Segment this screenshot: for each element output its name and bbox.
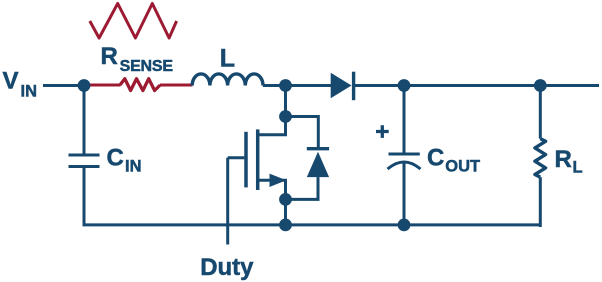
node COUT bottom junction (398, 219, 411, 232)
wire gate lead (228, 156, 245, 159)
node VIN junction (78, 79, 91, 92)
node switch junction (279, 79, 292, 92)
svg-text:IN: IN (21, 83, 38, 101)
svg-text:V: V (3, 68, 19, 95)
node bottom rail junction (279, 219, 292, 232)
wire body diode bottom lead (286, 177, 319, 199)
transistor Q1 source arrow (270, 174, 287, 187)
plus sign COUT polarity (376, 125, 389, 138)
label VIN (3, 68, 38, 101)
wire COUT branch upper (403, 86, 406, 153)
resistor RSENSE (120, 79, 160, 91)
wire body diode top lead (286, 117, 319, 148)
node output junction (398, 79, 411, 92)
svg-text:C: C (107, 145, 124, 172)
ripple waveform (inductor current) (90, 4, 177, 39)
wire RL branch upper (539, 86, 542, 139)
label CIN (107, 145, 142, 176)
wire source to bottom rail (284, 199, 287, 225)
label RL (555, 146, 583, 177)
node drain junction (279, 110, 292, 123)
wire COUT branch lower (403, 164, 406, 225)
wire Duty vertical (226, 158, 229, 245)
wire diode to right edge (354, 84, 599, 87)
svg-text:OUT: OUT (445, 158, 480, 176)
node load junction (534, 79, 547, 92)
svg-text:L: L (573, 159, 583, 177)
node source junction (279, 193, 292, 206)
wire CIN branch lower (83, 168, 86, 225)
body diode (307, 152, 329, 177)
transistor Q1 channel bar (256, 129, 260, 190)
wire source lead (256, 180, 285, 199)
svg-text:SENSE: SENSE (120, 58, 174, 75)
transistor Q1 gate bar (244, 132, 248, 188)
label RSENSE (101, 43, 174, 75)
resistor RL (535, 139, 546, 178)
wire CIN branch upper (83, 86, 86, 154)
wire RL branch lower (539, 177, 542, 227)
svg-text:R: R (101, 43, 118, 70)
svg-text:C: C (427, 145, 444, 172)
body diode cathode bar (307, 147, 329, 150)
wire VIN lead (43, 84, 84, 87)
wire bottom rail (83, 223, 541, 226)
diode D1 (331, 72, 354, 101)
svg-text:Duty: Duty (200, 254, 254, 281)
wire L to diode (263, 84, 332, 87)
capacitor CIN (69, 155, 100, 167)
wire red left of RSENSE (84, 84, 121, 87)
label COUT (427, 145, 480, 176)
wire drain branch (256, 86, 285, 135)
capacitor COUT (388, 154, 421, 169)
wire red right of RSENSE (160, 84, 193, 87)
svg-text:L: L (220, 45, 235, 73)
svg-text:IN: IN (125, 158, 142, 176)
inductor L (192, 74, 263, 86)
svg-text:R: R (555, 146, 572, 173)
